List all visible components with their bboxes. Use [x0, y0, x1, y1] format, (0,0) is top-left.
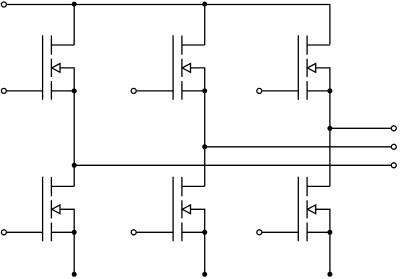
transistor Q6 (bottom-right N-MOSFET)	[298, 177, 330, 242]
transistor Q1 (top-left N-MOSFET)	[43, 35, 75, 100]
terminal: phase A output	[391, 163, 396, 168]
terminal: gate G6	[257, 230, 262, 235]
terminal: phase B output	[391, 144, 396, 149]
wire: leg B drain drop (rail to Q2)	[204, 5, 206, 46]
junction: phase A output node	[72, 163, 77, 168]
transistor Q4 (bottom-left N-MOSFET)	[43, 177, 75, 242]
wire: gate lead G4	[7, 231, 43, 233]
junction: phase C output node	[327, 126, 332, 131]
junction: negative bus node B	[202, 272, 207, 277]
wire: gate lead G5	[137, 231, 174, 233]
junction: Q3 source node	[327, 88, 332, 93]
junction: Q2 source node	[202, 88, 207, 93]
transistor Q5 (bottom-middle N-MOSFET)	[173, 177, 205, 242]
terminal: DC+ input	[1, 2, 6, 7]
terminal: gate G3	[257, 88, 262, 93]
wire: gate lead G6	[262, 231, 298, 233]
wire: gate lead G2	[137, 90, 174, 92]
transistor Q2 (top-middle N-MOSFET)	[173, 35, 205, 100]
wire: gate lead G1	[7, 90, 43, 92]
wire: leg B midpoint (Q2 source to Q5 drain)	[204, 91, 206, 186]
wire: Q6 source stub to negative bus	[329, 232, 331, 274]
wire: phase C output line	[330, 127, 391, 129]
wire: phase A output line	[74, 164, 391, 166]
wire: Q4 source stub to negative bus	[73, 232, 75, 274]
terminal: phase C output	[391, 126, 396, 131]
wire: phase B output line	[205, 146, 391, 148]
junction: Q1 source node	[72, 88, 77, 93]
junction: Q5 source node	[202, 230, 207, 235]
junction: Q4 source node	[72, 230, 77, 235]
junction: top rail / leg B	[202, 2, 207, 7]
terminal: gate G2	[131, 88, 136, 93]
terminal: gate G5	[131, 230, 136, 235]
terminal: gate G4	[1, 230, 6, 235]
wire: leg C midpoint (Q3 source to Q6 drain)	[329, 91, 331, 186]
junction: negative bus node A	[72, 272, 77, 277]
wire: positive DC rail (top)	[7, 5, 330, 45]
junction: phase B output node	[202, 144, 207, 149]
wire: gate lead G3	[262, 90, 298, 92]
transistor Q3 (top-right N-MOSFET)	[298, 35, 330, 100]
junction: negative bus node C	[327, 272, 332, 277]
junction: top rail / leg A	[72, 2, 77, 7]
wire: leg A midpoint (Q1 source to Q4 drain)	[73, 91, 75, 186]
wire: Q5 source stub to negative bus	[204, 232, 206, 274]
wire: leg A drain drop (rail to Q1)	[73, 5, 75, 46]
terminal: gate G1	[1, 88, 6, 93]
junction: Q6 source node	[327, 230, 332, 235]
